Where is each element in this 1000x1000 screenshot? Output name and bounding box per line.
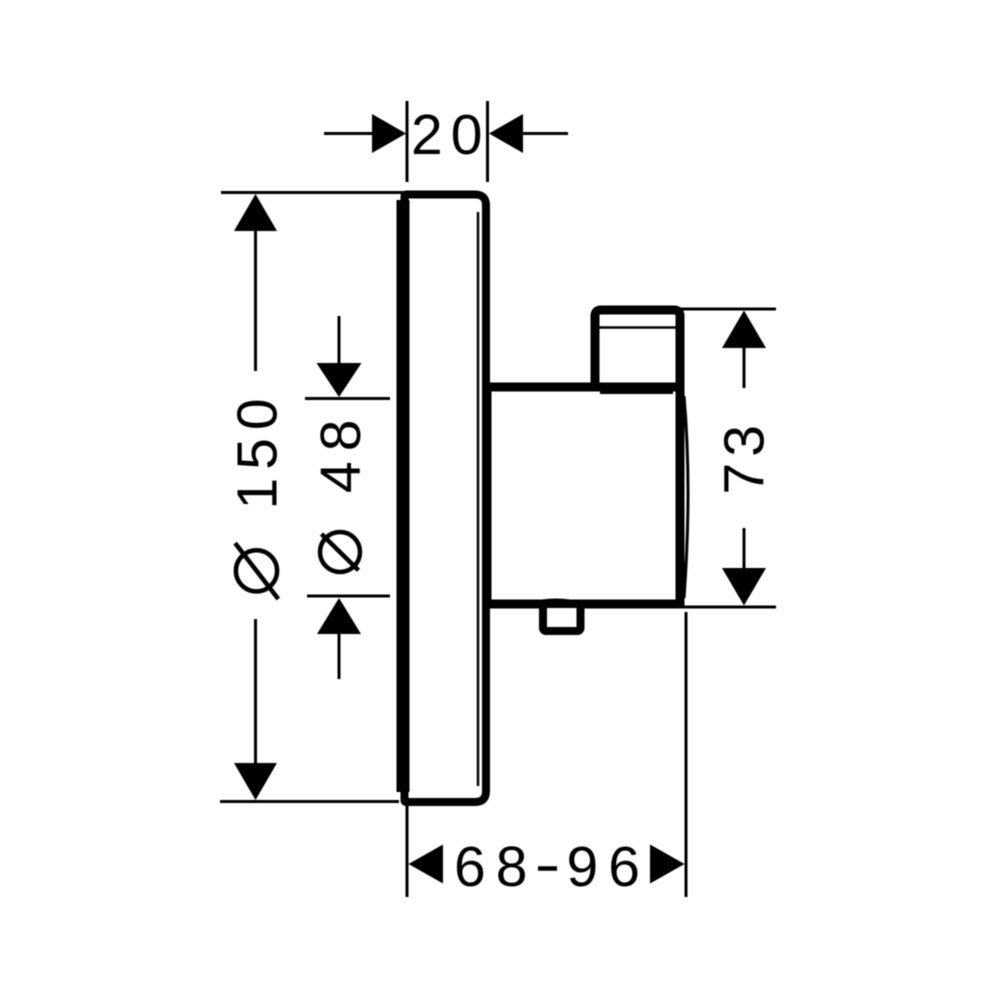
dim 20: left arrowhead (372, 114, 406, 153)
svg-text:73: 73 (713, 419, 777, 494)
dim 20: right arrowhead (489, 114, 523, 153)
body bottom edge bump over tab (528, 601, 584, 605)
svg-text:68: 68 (454, 835, 537, 899)
dim 150: diameter symbol (236, 550, 277, 591)
dim 68-96: right extension line (685, 612, 688, 897)
dim 48: lower stem (338, 633, 341, 679)
body inner line under top edge (600, 392, 673, 395)
cartridge bulge curve (684, 396, 688, 598)
dim 48: top extension line (305, 397, 390, 400)
valve body (487, 387, 680, 604)
dim 68-96: hyphen (538, 866, 557, 871)
plate face inner line (477, 212, 480, 786)
svg-text:20: 20 (411, 103, 490, 167)
dim 150: bottom arrowhead (234, 763, 277, 800)
dim 150: upper line (254, 230, 257, 371)
dim 68-96: right arrowhead (650, 845, 685, 884)
dim 20: right extension line (486, 101, 489, 182)
dim 150: lower line (254, 619, 257, 764)
dim 48: up arrowhead (317, 598, 361, 634)
dim 48: down arrowhead (317, 363, 362, 397)
dim 20: right arrow line (522, 132, 568, 135)
dim 68-96: left extension line (406, 806, 409, 897)
dim 20: left arrow line (324, 132, 373, 135)
dim 20: left extension line (406, 101, 409, 182)
stub inner line (599, 326, 676, 329)
dim 73: lower line (743, 528, 746, 570)
dim 68-96: left arrowhead (409, 845, 444, 884)
dim 150: top arrowhead (234, 194, 277, 231)
svg-text:150: 150 (226, 390, 290, 509)
dim 48: diameter symbol (320, 532, 360, 572)
escutcheon plate outline (405, 195, 487, 803)
svg-text:48: 48 (309, 410, 373, 493)
dim 48: bottom extension line (307, 595, 390, 598)
dim 48: upper stem (338, 316, 341, 364)
svg-text:96: 96 (567, 835, 650, 899)
dim 73: top arrowhead (722, 311, 766, 349)
dim 150: top extension line (221, 191, 407, 194)
dim 73: bottom arrowhead (722, 568, 766, 606)
dim 73: upper line (743, 347, 746, 388)
dim 73: top extension line (681, 308, 776, 311)
bottom tab (543, 604, 581, 631)
stop sleeve stub (595, 310, 680, 390)
plate back edge thick bar (397, 200, 410, 792)
dim 73: bottom extension line (684, 606, 776, 609)
dim 150: bottom extension line (220, 800, 399, 803)
